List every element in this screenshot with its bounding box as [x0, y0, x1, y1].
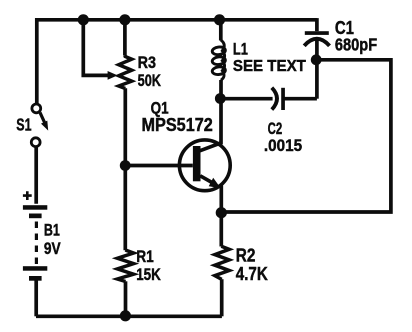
- wire collector diagonal: [200, 142, 223, 150]
- junction node base: [120, 160, 131, 171]
- junction node bottom bus: [120, 310, 131, 321]
- svg-text:R1: R1: [136, 247, 154, 266]
- wire C2 right: [285, 97, 317, 101]
- wire top bus: [35, 18, 317, 22]
- svg-text:50K: 50K: [138, 71, 162, 90]
- svg-text:15K: 15K: [136, 265, 161, 284]
- transistor Q1 emitter arrowhead: [209, 178, 221, 188]
- wire R3 wiper branch: [83, 20, 109, 76]
- resistor R2: [215, 246, 229, 279]
- wire bottom bus: [36, 314, 222, 318]
- junction node L1/C2/collector: [215, 93, 226, 104]
- potentiometer R3: [119, 56, 132, 89]
- junction node top A: [78, 14, 89, 25]
- battery B1: [23, 205, 47, 281]
- wire L1 column top: [219, 20, 223, 41]
- svg-text:L1: L1: [233, 41, 248, 59]
- wire battery to bottom bus: [34, 280, 38, 316]
- wire right loop: [222, 60, 391, 212]
- wire C2 left: [221, 97, 273, 101]
- junction node emitter/R2: [216, 207, 227, 218]
- svg-text:S1: S1: [16, 114, 31, 134]
- capacitor C1 top plate: [305, 31, 329, 35]
- wire left vertical to S1: [35, 18, 39, 104]
- switch S1 arrowhead: [41, 121, 48, 131]
- transistor Q1 circle: [179, 140, 230, 191]
- capacitor C2 flat plate: [281, 88, 285, 110]
- svg-text:9V: 9V: [44, 240, 61, 258]
- svg-text:4.7K: 4.7K: [236, 264, 268, 284]
- wire R3 top drop: [123, 20, 127, 56]
- resistor R1: [117, 250, 133, 282]
- svg-text:SEE TEXT: SEE TEXT: [233, 58, 306, 75]
- wire C1 drop: [315, 18, 319, 31]
- wire S1 to battery: [34, 147, 38, 204]
- battery B1 dashed cells line: [35, 222, 38, 265]
- wire base: [125, 164, 193, 168]
- junction node top C: [214, 14, 225, 25]
- transistor Q1 base bar: [193, 146, 201, 181]
- capacitor C1 curved plate: [304, 39, 329, 46]
- R3 wiper arrowhead: [108, 71, 118, 80]
- switch S1: [31, 104, 44, 147]
- wire L1 bottom to collector node: [219, 80, 223, 144]
- svg-text:R3: R3: [138, 53, 156, 72]
- wire emitter diagonal: [200, 176, 213, 184]
- svg-text:R2: R2: [236, 246, 256, 266]
- inductor L1: [212, 40, 226, 80]
- battery B1 plus sign: [23, 191, 32, 200]
- wire emitter column: [219, 186, 223, 247]
- svg-text:B1: B1: [44, 221, 60, 239]
- wire R2 bottom: [220, 279, 224, 316]
- capacitor C2 curved plate: [272, 88, 277, 110]
- svg-text:680pF: 680pF: [335, 35, 378, 55]
- wire C1 to C2 node column: [315, 40, 319, 99]
- svg-text:MPS5172: MPS5172: [142, 115, 213, 135]
- junction node top B: [119, 14, 130, 25]
- wire R1 bottom: [124, 281, 128, 316]
- junction node C1/C2/right loop: [311, 54, 322, 65]
- wire R3 bottom to base node to R1: [123, 88, 127, 250]
- svg-text:.0015: .0015: [264, 136, 302, 155]
